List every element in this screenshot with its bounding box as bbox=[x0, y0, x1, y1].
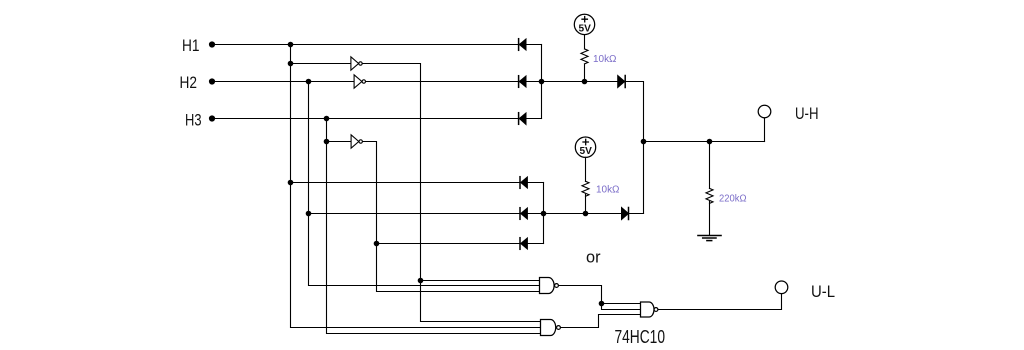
wire D8 to output bus bbox=[629, 213, 644, 215]
wire H1 vertical bus x290 bbox=[291, 45, 541, 328]
terminal dot H1 bbox=[209, 41, 215, 47]
wire inverter U3 output vertical x376 bbox=[363, 142, 540, 292]
junction H1 tap bbox=[288, 42, 294, 48]
nand gate G2 bbox=[541, 320, 556, 336]
wire diode row D4 from H1 bus bbox=[291, 182, 521, 184]
diode D5 bbox=[519, 208, 521, 220]
wire G1 output bbox=[559, 286, 641, 310]
power source V1 5V bbox=[574, 14, 594, 34]
diode D4 bbox=[519, 177, 521, 189]
terminal U-L bbox=[775, 281, 788, 294]
wire down to resistor R3 bbox=[709, 142, 711, 189]
svg-text:H1: H1 bbox=[182, 36, 200, 55]
diode D8 bbox=[622, 208, 629, 220]
svg-text:10kΩ: 10kΩ bbox=[596, 183, 620, 195]
wire diode row D5 from H2 bus bbox=[309, 213, 521, 215]
inverter U2 bbox=[354, 75, 362, 88]
wire inverter U1 input bbox=[291, 63, 351, 65]
wire inverter U3 input bbox=[327, 141, 352, 143]
wire D4 to bus2 bbox=[527, 182, 543, 184]
junction D5 row tap bbox=[306, 211, 312, 217]
junction H2 tap bbox=[306, 79, 312, 85]
wire G3 output bbox=[658, 294, 782, 310]
resistor R3 bbox=[706, 188, 713, 203]
wire D3 to bus1 bbox=[526, 118, 542, 120]
wire R1 to node bbox=[584, 64, 586, 82]
wire V1 to resistor R1 bbox=[584, 35, 586, 49]
wire U-H node horizontal bbox=[644, 141, 765, 143]
svg-text:U-L: U-L bbox=[811, 282, 835, 301]
junction G1 top input tap bbox=[418, 278, 424, 284]
wire H2 to inverter U2 bbox=[212, 81, 354, 83]
diode D2 bbox=[518, 76, 520, 88]
junction R2 bottom bbox=[583, 211, 589, 217]
wire V2 to resistor R2 bbox=[585, 157, 587, 181]
svg-text:U-H: U-H bbox=[795, 104, 819, 123]
terminal dot H3 bbox=[209, 115, 215, 121]
junction 220k tap bbox=[707, 139, 713, 145]
svg-text:220kΩ: 220kΩ bbox=[719, 192, 747, 204]
nand gate G1 bbox=[540, 278, 555, 294]
terminal U-H bbox=[758, 105, 771, 118]
wire R3 to ground bbox=[709, 201, 711, 235]
wire R2 to node bbox=[585, 194, 587, 213]
resistor R1 bbox=[581, 49, 588, 64]
wire H1 horizontal bbox=[212, 44, 519, 46]
wire D7 to output bus bbox=[625, 82, 643, 214]
resistor R2 bbox=[582, 181, 589, 196]
junction U3 input tap bbox=[324, 139, 330, 145]
wire gate G1 top input bbox=[421, 280, 540, 282]
diode D1 bbox=[518, 39, 520, 51]
svg-text:or: or bbox=[586, 247, 601, 266]
svg-text:5V: 5V bbox=[579, 23, 592, 34]
wire diode row D6 from U3 bus bbox=[377, 243, 521, 245]
junction D6 row tap bbox=[374, 241, 380, 247]
svg-text:5V: 5V bbox=[580, 146, 593, 157]
wire H2 vertical bus x308 bbox=[309, 82, 540, 286]
diode D7 bbox=[618, 76, 625, 88]
wire G2 output bbox=[561, 315, 641, 328]
junction bus1 middle bbox=[539, 79, 545, 85]
diode D6 bbox=[519, 238, 521, 250]
wire bus1 vertical bbox=[541, 45, 543, 119]
inverter U1 bbox=[351, 57, 359, 70]
svg-text:H3: H3 bbox=[185, 111, 202, 130]
junction U1 input tap bbox=[288, 61, 294, 67]
inverter U3 bbox=[351, 135, 359, 148]
junction G3 input bbox=[599, 301, 605, 307]
ground bbox=[698, 235, 721, 237]
wire D5 to bus2 bbox=[527, 213, 543, 215]
wire D2 to bus1 bbox=[526, 81, 542, 83]
power source V2 5V bbox=[575, 137, 595, 157]
wire inverter U1 output vertical x421 bbox=[362, 64, 540, 322]
junction D4 row tap bbox=[288, 180, 294, 186]
junction bus2 middle bbox=[541, 211, 547, 217]
wire D1 to bus1 bbox=[526, 44, 542, 46]
junction output bus bbox=[641, 139, 647, 145]
wire U-H terminal stem bbox=[764, 118, 766, 142]
junction R1 bottom bbox=[582, 79, 588, 85]
diode D3 bbox=[518, 113, 520, 125]
wire G3 input1 bbox=[602, 303, 641, 305]
nand gate G3 bbox=[641, 302, 655, 317]
wire bus2 to resistor node 2 bbox=[544, 213, 622, 215]
svg-text:10kΩ: 10kΩ bbox=[593, 53, 617, 65]
wire bus1 to resistor node bbox=[542, 81, 618, 83]
wire inverter U2 output to diode D2 bbox=[366, 81, 519, 83]
terminal dot H2 bbox=[209, 78, 215, 84]
wire H3 vertical bus x326 bbox=[327, 119, 541, 334]
wire H3 horizontal bbox=[212, 118, 519, 120]
svg-text:74HC10: 74HC10 bbox=[615, 327, 666, 347]
wire D6 to bus2 bbox=[527, 243, 543, 245]
wire bus2 vertical bbox=[543, 183, 545, 244]
junction H3 tap bbox=[324, 116, 330, 122]
svg-text:H2: H2 bbox=[180, 73, 198, 92]
